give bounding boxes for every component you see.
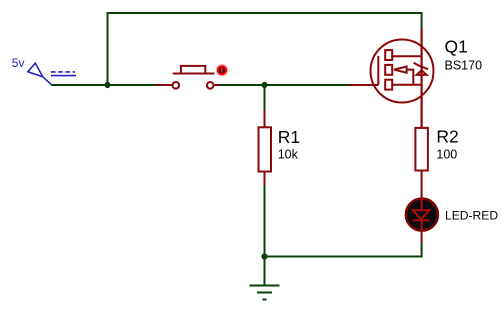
svg-text:5v: 5v <box>12 56 25 70</box>
LED anode line <box>421 198 423 210</box>
LED triangle <box>413 210 430 219</box>
pushbutton right lead <box>214 84 219 86</box>
Q1 channel square top <box>385 50 392 60</box>
Q1 drain pin <box>421 29 423 128</box>
LED bottom pin <box>421 231 423 243</box>
Q1 substrate arrow <box>394 67 407 73</box>
LED cathode line <box>421 220 423 231</box>
svg-text:LED-RED: LED-RED <box>445 208 498 222</box>
pushbutton left lead <box>156 84 172 86</box>
Q1 body diode cathode <box>414 63 429 69</box>
label LED-RED <box>445 208 498 222</box>
svg-text:BS170: BS170 <box>445 58 483 72</box>
wire R1 to bottom rail <box>264 185 266 257</box>
R2 bottom pin <box>421 171 423 199</box>
R2 body <box>415 128 428 171</box>
junction node gate/R1 <box>261 82 267 88</box>
Q1 gate lead <box>349 84 378 86</box>
label R2 value 100 <box>436 147 457 161</box>
svg-text:R2: R2 <box>436 127 458 147</box>
power terminal 5v <box>28 63 76 85</box>
pushbutton plate <box>173 73 215 75</box>
wire 5v terminal to junction <box>51 84 156 86</box>
label R2 <box>436 127 458 147</box>
R1 body <box>259 127 272 171</box>
pushbutton right contact <box>207 82 214 89</box>
wire bottom rail <box>265 242 422 257</box>
svg-text:10k: 10k <box>278 148 299 162</box>
svg-text:Q1: Q1 <box>445 36 468 56</box>
pushbutton left contact <box>173 82 180 89</box>
LED D1 LED-RED <box>406 198 438 243</box>
Q1 substrate tail <box>407 70 414 85</box>
label Q1 value BS170 <box>445 58 483 72</box>
R1 top pin <box>264 111 266 128</box>
LED body <box>406 199 438 231</box>
pushbutton actuator <box>181 66 205 74</box>
pushbutton toggle dot <box>216 64 229 77</box>
Q1 channel square bottom <box>385 80 392 90</box>
label Q1 <box>445 36 468 56</box>
transistor Q1 <box>349 29 434 128</box>
svg-text:100: 100 <box>436 147 457 161</box>
Q1 drain connect <box>392 55 421 57</box>
junction node at ground <box>261 253 267 259</box>
Q1 body circle <box>371 40 434 103</box>
svg-text:R1: R1 <box>278 127 300 147</box>
R1 bottom pin <box>264 172 266 186</box>
wire button to gate junction <box>219 84 349 86</box>
wire junction down to R1 <box>264 85 266 111</box>
label R1 <box>278 127 300 147</box>
ground <box>250 257 280 300</box>
pushbutton <box>156 66 220 89</box>
wire top rail <box>108 13 422 86</box>
label R1 value 10k <box>278 148 299 162</box>
Q1 body diode triangle <box>417 70 427 75</box>
Q1 source connect <box>392 84 421 86</box>
resistor R1 <box>259 111 272 186</box>
Q1 gate bar <box>377 56 379 85</box>
junction node at left <box>104 82 110 88</box>
LED cathode bar <box>413 219 430 221</box>
resistor R2 <box>415 128 428 198</box>
label 5v <box>12 56 25 70</box>
Q1 channel square middle <box>385 65 392 75</box>
